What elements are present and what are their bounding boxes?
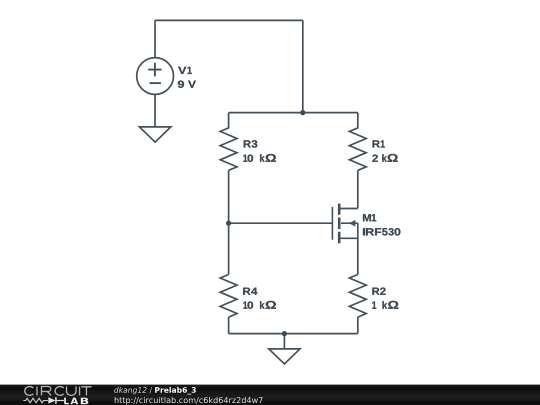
label R4 value 10 kOhm [243,301,276,309]
wire R4 to bottom rail [228,317,230,334]
logo LAB text [64,398,88,405]
label M1 part IRF530 [363,228,400,235]
wire mid rail [229,112,358,114]
voltage source V1 [137,58,174,95]
wire bottom rail [229,333,358,335]
node junction ground [282,331,287,336]
transistor M1 [332,204,357,244]
label R2 value 1 kOhm [372,301,398,309]
credit line 2 url [115,397,263,405]
wire V1 top lead [154,20,156,57]
logo CIRCUIT lettering [25,386,92,395]
ground under V1 [139,127,171,142]
label R2 [372,288,385,295]
label V1 [178,67,192,74]
node junction gate [226,221,231,226]
label R3 [244,140,258,147]
label R4 [243,288,257,295]
wire V1 bottom lead [154,94,156,127]
resistor R3 [220,113,237,171]
label R1 [373,140,385,147]
wire bottom ground lead [283,334,285,349]
wire R2 to bottom rail [357,317,359,334]
label V1 value 9 V [178,81,196,88]
logo resistor squiggle [23,398,48,403]
wire gate rail [229,222,333,224]
wire top rail [155,19,303,21]
wire R1 to drain [357,170,359,208]
label R3 value 10 kOhm [243,154,276,162]
resistor R2 [349,275,366,318]
resistor R1 [349,113,366,171]
logo diode [48,397,64,404]
label R1 value 2 kOhm [372,154,397,162]
credit line 1 dkang12 / Prelab6_3 [114,387,196,395]
label M1 [363,214,376,221]
node junction top [300,110,305,115]
wire source to R2 [357,223,359,274]
resistor R4 [220,275,237,318]
ground bottom [269,349,300,364]
wire top-to-mid-rail drop [302,20,304,112]
wire R3 to gate rail to R4 [228,170,230,274]
